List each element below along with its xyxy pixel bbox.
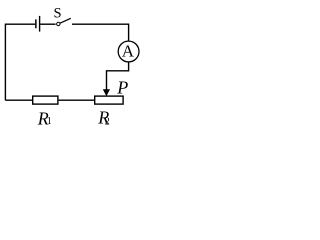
svg-text:1: 1 [47, 116, 52, 127]
resistor R1 [33, 96, 58, 104]
resistor R2 (rheostat) [95, 96, 123, 104]
wire ammeter bottom to slider arrow [107, 62, 129, 90]
slider arrow P [103, 89, 110, 96]
svg-text:P: P [116, 77, 128, 97]
ammeter U1 [118, 41, 139, 62]
wire bottom: left corner to R1 [5, 99, 32, 101]
wire top-left: left corner to battery [5, 24, 35, 100]
battery cell [36, 16, 40, 32]
svg-text:A: A [122, 41, 135, 60]
svg-text:S: S [53, 6, 61, 22]
wire R1 to R2 [59, 99, 94, 101]
svg-text:2: 2 [105, 117, 110, 128]
wire battery to switch pivot [40, 23, 55, 25]
switch S [57, 18, 71, 25]
wire switch contact to top-right corner, down to ammeter [72, 24, 129, 41]
